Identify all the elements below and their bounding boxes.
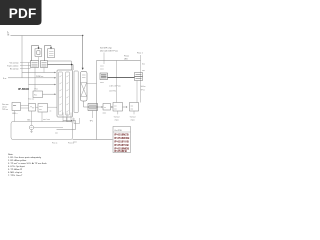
- svg-text:xxxx: xxxx: [100, 82, 104, 84]
- svg-text:IP-65X8: IP-65X8: [18, 87, 29, 91]
- svg-text:Pxx xx: Pxx xx: [52, 143, 57, 145]
- svg-text:Out P/N:: Out P/N:: [114, 129, 122, 132]
- filter block F1: [31, 61, 39, 68]
- wire rail drop x96: [96, 61, 98, 140]
- svg-text:Rxx: Rxx: [34, 94, 37, 96]
- wire ctrl line 1: [22, 72, 55, 74]
- svg-text:GND x: GND x: [12, 113, 17, 115]
- wire T1 bottom: [84, 101, 89, 107]
- regulator stack U6: [135, 73, 143, 81]
- AC source symbol: [29, 125, 33, 129]
- PDF badge: [0, 0, 42, 25]
- svg-text:xxxx: xxxx: [103, 113, 107, 115]
- svg-text:xxx: xxx: [39, 109, 42, 111]
- svg-text:xxx: xxx: [142, 70, 145, 72]
- wire Pxxx stub: [140, 55, 142, 61]
- wire rail right drop: [82, 36, 84, 69]
- wire dark bus to HV block: [48, 64, 72, 66]
- svg-text:6. MR: chip tst: 6. MR: chip tst: [8, 171, 22, 174]
- wire ldo bus: [108, 77, 135, 79]
- svg-text:1. R1: Use these parts adequat: 1. R1: Use these parts adequately: [8, 156, 42, 159]
- svg-text:xxx: xxx: [131, 106, 134, 108]
- wire U6 drop: [136, 81, 138, 103]
- svg-text:TXD xx: TXD xx: [2, 109, 8, 111]
- wire drop x28 lower: [28, 85, 30, 104]
- svg-text:xxxx: xxxx: [39, 106, 43, 108]
- svg-text:Txd out: Txd out: [114, 115, 120, 118]
- feedback loop wire 2: [45, 46, 52, 62]
- wire D1 test drop: [92, 111, 94, 119]
- wire drop x35: [34, 68, 36, 92]
- node L (AC input label): [8, 31, 10, 37]
- svg-text:IP-6518NZB: IP-6518NZB: [114, 133, 129, 137]
- wire C2 top feed: [48, 61, 72, 70]
- wire arrow out of enclosure: [63, 120, 71, 122]
- wire J2 out: [21, 106, 29, 109]
- bracket under U1: [67, 118, 74, 122]
- wire baseline: [73, 139, 113, 141]
- svg-text:Ex sense: Ex sense: [10, 69, 19, 71]
- svg-text:chips: chips: [131, 120, 135, 122]
- connector comb: [63, 113, 71, 123]
- ground mark under source: [30, 130, 32, 133]
- IC U2 side block: [74, 71, 78, 113]
- svg-text:x dim ctrl Pxxx: x dim ctrl Pxxx: [109, 85, 121, 88]
- wire wifi drop: [103, 53, 105, 65]
- transformer T1: [81, 72, 88, 102]
- wire T1 aux tap: [87, 83, 97, 85]
- svg-text:xCtrl Pxx: xCtrl Pxx: [109, 90, 116, 93]
- LDO U5: [100, 73, 108, 80]
- wire C10 to C11 arrow: [123, 106, 127, 108]
- svg-text:xxxx: xxxx: [100, 69, 104, 71]
- wire C10 drop: [117, 111, 119, 114]
- svg-text:xx: xx: [104, 107, 106, 109]
- svg-text:xxx: xxx: [55, 133, 58, 135]
- svg-text:3. TP out* is same 10%. At TP: 3. TP out* is same 10%. At TP use flash: [8, 162, 47, 165]
- optocoupler U3: [35, 49, 42, 57]
- svg-text:TPx: TPx: [90, 121, 93, 123]
- svg-text:Txd out: Txd out: [130, 115, 136, 118]
- svg-text:5. TP: Allow Pl: 5. TP: Allow Pl: [8, 168, 23, 171]
- svg-text:2. R2: Allow yellow: 2. R2: Allow yellow: [8, 159, 27, 162]
- svg-text:Vin sense: Vin sense: [10, 63, 20, 65]
- svg-text:3xx: 3xx: [142, 64, 145, 66]
- svg-text:IP-6518YUB: IP-6518YUB: [114, 140, 129, 144]
- svg-text:xx: xx: [50, 111, 52, 113]
- IC U1 main block: [57, 70, 73, 117]
- svg-text:PDF: PDF: [9, 6, 37, 21]
- wire drop F stubs: [43, 68, 45, 73]
- feedback loop wire 1: [32, 46, 39, 62]
- part number table: [113, 127, 131, 154]
- enclosure box bottom-left: [11, 122, 73, 140]
- wire ctrl line 3: [29, 84, 55, 86]
- svg-text:xxx / xxx: xxx / xxx: [43, 119, 50, 121]
- svg-text:7. TPS: Over T: 7. TPS: Over T: [8, 174, 23, 177]
- driver block G2: [38, 104, 48, 113]
- label dim ctrl left: [2, 104, 8, 111]
- cap bank C11: [130, 103, 139, 112]
- wire left drop x22: [21, 36, 23, 78]
- connector J2: [12, 103, 21, 111]
- wire rail drop x140: [140, 61, 142, 103]
- regulator U4: [48, 49, 55, 58]
- wire G2 to IC: [48, 106, 58, 108]
- svg-text:TPxx: TPxx: [141, 90, 145, 92]
- wire sense lines: [20, 63, 31, 69]
- svg-text:Pxxxx: Pxxxx: [124, 56, 129, 58]
- svg-text:xxxx: xxxx: [73, 142, 77, 144]
- wire R10 out: [43, 93, 55, 95]
- wire from source: [34, 127, 63, 129]
- label power LED: [124, 56, 129, 61]
- wire stubs into enclosure: [32, 111, 43, 125]
- resistor block R10: [33, 91, 43, 98]
- svg-text:IP-6518TUB: IP-6518TUB: [114, 143, 129, 147]
- wire rail drop x116: [116, 61, 118, 103]
- svg-text:chips: chips: [115, 120, 119, 122]
- svg-text:xxxx: xxxx: [100, 66, 104, 68]
- wire vcc rail right: [97, 60, 141, 62]
- cap bank C10: [113, 103, 123, 112]
- svg-text:N: N: [8, 33, 10, 36]
- wire top rail: [11, 35, 83, 37]
- svg-text:4. LPS: Opt Input: 4. LPS: Opt Input: [8, 165, 25, 168]
- svg-text:If xx: If xx: [3, 78, 6, 80]
- bracket under U2: [74, 118, 80, 124]
- wire L2 to C10 arrow: [111, 106, 112, 108]
- wire arrow into transformer: [82, 68, 84, 70]
- svg-text:Trans sense: Trans sense: [7, 65, 19, 68]
- wire drop x28: [28, 63, 30, 85]
- svg-text:IP-6518FB: IP-6518FB: [114, 149, 127, 153]
- svg-text:Set WiFi chip: Set WiFi chip: [100, 47, 113, 50]
- wire J2 drop: [14, 111, 16, 122]
- filter block F2: [41, 61, 48, 68]
- svg-text:xxx: xxx: [131, 109, 134, 111]
- label set wifi chip note: [100, 47, 118, 53]
- svg-text:xxx: xxx: [114, 109, 117, 111]
- wire G1-G2: [36, 106, 39, 108]
- inductor L2: [103, 104, 111, 111]
- wire U3 bottom stub: [38, 57, 40, 61]
- IC U1 left pin column: [59, 72, 63, 115]
- wire C11 drop: [133, 111, 135, 114]
- svg-text:Note:: Note:: [8, 153, 14, 156]
- IC pin ticks: [60, 76, 69, 113]
- wire ctrl line 2: [8, 77, 55, 79]
- osc block G1: [29, 104, 36, 112]
- svg-text:(Set with DNI TPxx): (Set with DNI TPxx): [100, 50, 118, 53]
- svg-text:Vxx xxx: Vxx xxx: [28, 99, 34, 101]
- svg-text:xxx: xxx: [114, 106, 117, 108]
- rectifier stack D1: [88, 104, 98, 111]
- svg-text:Pxxx 1: Pxxx 1: [137, 52, 143, 54]
- IC U1 right pin column: [66, 72, 70, 115]
- svg-text:LED: LED: [124, 58, 128, 60]
- svg-text:3xVxx: 3xVxx: [141, 86, 146, 88]
- wire D1 to L2 arrow: [98, 106, 102, 108]
- svg-text:Pxx: Pxx: [35, 88, 38, 90]
- svg-text:IP-6518WXB: IP-6518WXB: [114, 136, 129, 140]
- svg-text:GBx: GBx: [27, 119, 31, 121]
- notes block: [8, 153, 47, 177]
